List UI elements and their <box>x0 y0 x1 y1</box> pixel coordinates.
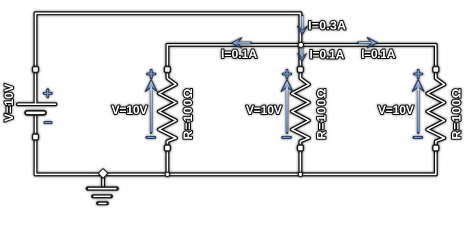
wire core: middle rail + stubs to R1 and R3 <box>167 45 435 66</box>
terminal square R2 top <box>297 66 304 73</box>
voltage arrow across R3 <box>412 70 424 137</box>
svg-text:I=0.1A: I=0.1A <box>310 47 345 61</box>
resistor R1 zigzag <box>159 66 176 152</box>
wire core: R1 bottom stub <box>166 152 168 175</box>
terminal square battery top core <box>33 67 38 72</box>
current arrow I=0.1A (left, into R1 branch) <box>232 38 251 48</box>
node A junction dot <box>298 42 305 49</box>
voltage arrow V1 minus sign (battery) <box>45 121 51 124</box>
current arrow I=0.1A (down into R2) <box>298 48 307 61</box>
resistor R3 zigzag core <box>427 66 444 152</box>
current arrow I=0.3A (down into node A) <box>297 16 307 35</box>
ground bar 2 <box>91 194 113 198</box>
ground bar 1 core <box>88 188 117 190</box>
terminal square R1 bottom core <box>165 146 170 151</box>
terminal square R2 bottom core <box>298 146 303 151</box>
ground node diamond core <box>99 169 107 177</box>
wire: ground stub <box>101 174 105 186</box>
terminal square R2 bottom <box>297 144 304 151</box>
ground node diamond <box>98 168 109 179</box>
svg-text:R=100Ω: R=100Ω <box>315 88 329 139</box>
ground bar 3 <box>96 201 109 205</box>
wire: bottom rail <box>36 172 436 176</box>
wire core: top rail + battery top lead + node-A drop <box>36 13 301 103</box>
terminal square R1 bottom <box>164 144 171 151</box>
wire: middle rail + stubs to R1 and R3 <box>167 45 435 66</box>
battery V1 positive plate <box>18 102 56 106</box>
wire core: bottom rail <box>36 173 436 175</box>
wire: battery bottom lead <box>34 115 38 174</box>
ground bar 3 core <box>98 203 107 204</box>
wire: R2 bottom stub <box>298 152 302 175</box>
voltage arrow across R2 <box>281 70 293 137</box>
terminal square R3 bottom <box>432 144 439 151</box>
resistor R2 zigzag core <box>292 66 309 152</box>
terminal square R1 top <box>164 66 171 73</box>
svg-text:I=0.3A: I=0.3A <box>308 19 346 33</box>
terminal square battery bottom core <box>33 135 38 140</box>
svg-text:I=0.1A: I=0.1A <box>221 47 257 61</box>
resistor R3 zigzag <box>427 66 444 152</box>
voltage arrow across R1 <box>145 70 157 137</box>
terminal square R3 top core <box>434 67 439 72</box>
node junction dot R1-bottom core <box>166 173 169 176</box>
resistor R1 zigzag core <box>159 66 176 152</box>
wire: R1 bottom stub <box>165 152 169 175</box>
wire: top rail + battery top lead + node-A drop <box>36 13 301 103</box>
resistor R2 zigzag <box>292 66 309 152</box>
current arrow I=0.1A (right, into R3 branch) <box>358 38 377 48</box>
wire core: R2 bottom stub <box>299 152 301 175</box>
svg-text:I=0.1A: I=0.1A <box>361 47 395 61</box>
battery V1 negative plate <box>24 110 47 116</box>
terminal square R3 top <box>432 66 439 73</box>
terminal square R3 bottom core <box>434 146 439 151</box>
battery V1 positive plate core <box>18 103 56 105</box>
terminal square R1 top core <box>165 67 170 72</box>
battery V1 negative plate core <box>26 112 45 114</box>
wire core: R3 bottom stub <box>435 152 437 175</box>
svg-text:V=10V: V=10V <box>112 103 149 117</box>
voltage arrow V1 plus sign (battery) <box>44 90 51 97</box>
svg-text:V=10V: V=10V <box>2 83 16 122</box>
terminal square battery bottom <box>32 133 39 140</box>
node junction dot R2-bottom <box>298 172 303 177</box>
wire core: battery bottom lead <box>35 115 37 174</box>
terminal square battery top <box>32 66 39 73</box>
node A junction dot core <box>299 43 303 47</box>
svg-text:R=100Ω: R=100Ω <box>181 88 195 139</box>
node junction dot R1-bottom <box>165 172 170 177</box>
node junction dot R2-bottom core <box>299 173 302 176</box>
svg-text:R=100Ω: R=100Ω <box>449 88 463 139</box>
terminal square R2 top core <box>298 67 303 72</box>
wire: R3 bottom stub <box>434 152 438 175</box>
wire core: ground stub <box>102 174 104 186</box>
ground bar 1 <box>86 186 119 190</box>
ground bar 2 core <box>93 196 110 197</box>
svg-text:V=10V: V=10V <box>246 103 283 117</box>
svg-text:V=10V: V=10V <box>378 103 415 117</box>
